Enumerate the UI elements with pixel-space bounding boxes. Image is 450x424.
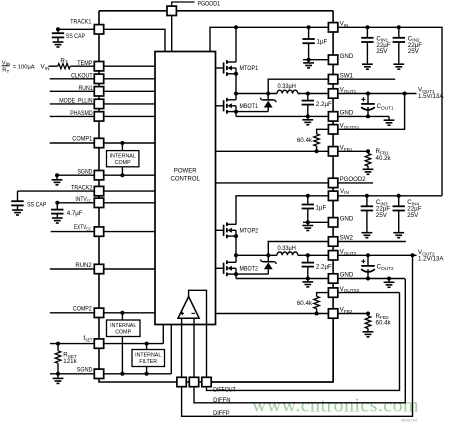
capacitor CIN1 bbox=[361, 37, 373, 39]
wire MODE_PLLIN bbox=[50, 103, 155, 105]
wire VIN rail right ch1 to far right bbox=[338, 27, 442, 196]
svg-text:SS CAP: SS CAP bbox=[27, 202, 46, 209]
ground GND1B bbox=[388, 118, 390, 121]
ground ch2 mid bbox=[307, 279, 309, 282]
svg-text:2.2µF: 2.2µF bbox=[316, 101, 332, 108]
svg-text:GND: GND bbox=[340, 272, 354, 279]
diode D1 schottky bbox=[267, 94, 269, 100]
wire DIFFOUT bbox=[211, 318, 333, 382]
node GND1A dot bbox=[307, 58, 311, 62]
op-amp plus sign bbox=[180, 312, 184, 314]
internal filter block bbox=[132, 350, 165, 367]
resistor RFB2 60.4k bbox=[365, 316, 371, 329]
svg-text:25V: 25V bbox=[376, 48, 388, 55]
resistor 60.4k ch1 bbox=[314, 134, 320, 146]
wire VOUTS1 sense loop bbox=[338, 94, 405, 130]
pin COMP2 (left) bbox=[94, 308, 103, 317]
package bottom edge through DIFF pins bbox=[177, 381, 333, 383]
wire VFB1 right bbox=[338, 150, 368, 152]
wire GND2A left bbox=[303, 221, 328, 223]
capacitor COUT2 bbox=[361, 260, 365, 262]
wire VFB1 bbox=[216, 150, 329, 152]
node diode2 junction bbox=[266, 253, 270, 257]
pin DIFFOUT (bottom) bbox=[202, 377, 211, 386]
left pin bus bbox=[98, 11, 100, 379]
wire DIFFOUT to VOUTS2 bbox=[207, 293, 400, 391]
svg-text:RUN2: RUN2 bbox=[75, 262, 92, 269]
ground CIN2 bbox=[398, 62, 400, 65]
resistor RFB1 40.2k bbox=[365, 154, 371, 166]
ground SGND1 bbox=[56, 175, 58, 180]
node VFB2 dots bbox=[315, 312, 319, 316]
svg-text:SGND: SGND bbox=[78, 168, 93, 175]
wire COMP2 to internal comp2 bbox=[121, 313, 123, 320]
resistor 60.4k ch2 bbox=[314, 296, 320, 308]
pin VIN (right) bbox=[328, 23, 337, 32]
wire PGOOD2 left bbox=[216, 182, 329, 184]
wire internal filter top bbox=[146, 344, 148, 350]
wire SW2 pin to switch node bbox=[268, 242, 328, 256]
capacitor CIN4 bbox=[393, 205, 405, 207]
wire diode2 anode to MBOT2 source bbox=[236, 273, 268, 275]
wire SGND2 bbox=[50, 373, 171, 375]
internal comp block 2 bbox=[107, 320, 141, 337]
wire TRACK1 to block top bbox=[104, 29, 165, 51]
svg-text:RUN1: RUN1 bbox=[79, 85, 94, 92]
svg-text:GND: GND bbox=[340, 216, 354, 223]
ground 1uF ch1 bbox=[308, 60, 310, 63]
svg-text:1.2V/13A: 1.2V/13A bbox=[418, 256, 444, 263]
right pin bus bbox=[332, 11, 334, 382]
inductor L2 0.33uH bbox=[277, 252, 298, 255]
transistor MBOT2 bbox=[216, 267, 224, 269]
pin GND (right) bbox=[328, 112, 337, 121]
svg-text:www.cntronics.com: www.cntronics.com bbox=[252, 395, 419, 417]
ground CIN4 bbox=[398, 231, 400, 234]
pin GND (right) bbox=[328, 218, 337, 227]
pin COMP1 (left) bbox=[94, 138, 103, 147]
ground SS CAP1 bbox=[57, 37, 59, 42]
wire PGOOD2 right stub bbox=[338, 182, 373, 184]
wire VOUTS2 to divider bbox=[317, 293, 329, 297]
wire EXTVCC bbox=[51, 231, 155, 233]
wire VIN rail ch1 bbox=[210, 27, 328, 51]
capacitor 1uF ch1 bbox=[302, 38, 314, 40]
power control block U1 bbox=[155, 52, 216, 325]
svg-text:MODE_PLLIN: MODE_PLLIN bbox=[59, 97, 92, 104]
pin GND (right) bbox=[328, 55, 337, 64]
wire FSET into block bottom bbox=[162, 325, 164, 344]
wire DIFFP bbox=[182, 255, 413, 416]
svg-text:DIFFP: DIFFP bbox=[213, 410, 230, 417]
svg-text:121k: 121k bbox=[63, 358, 77, 365]
pin DIFFN (bottom) bbox=[189, 377, 198, 386]
svg-text:1µF: 1µF bbox=[317, 39, 328, 46]
pin TRACK1 (left) bbox=[94, 25, 103, 34]
pin TRACK2 (left) bbox=[94, 186, 103, 195]
node COMP2 junction bbox=[120, 311, 124, 315]
svg-text:MTOP2: MTOP2 bbox=[240, 227, 259, 234]
pin VFB2 (right) bbox=[328, 309, 337, 318]
pin EXTVCC (left) bbox=[94, 227, 103, 236]
wire VFB2 bbox=[216, 313, 329, 315]
svg-text:TRACK2: TRACK2 bbox=[71, 184, 93, 191]
pin VOUTS1 (right) bbox=[328, 125, 337, 134]
svg-text:25V: 25V bbox=[407, 212, 419, 219]
wire internal comp1 to SGND bbox=[121, 167, 123, 175]
node TRACK1 sscap junction bbox=[56, 27, 60, 31]
wire SGND2 into block bottom bbox=[170, 325, 172, 374]
pin FSET (left) bbox=[94, 339, 103, 348]
svg-text:CLKOUT: CLKOUT bbox=[71, 72, 93, 79]
capacitor COUT1 bbox=[361, 98, 365, 100]
svg-text:60.4k: 60.4k bbox=[297, 300, 313, 307]
diode D2 schottky bbox=[267, 255, 269, 261]
node VIN rail dots ch1 bbox=[234, 25, 238, 29]
svg-text:SW2: SW2 bbox=[340, 235, 354, 242]
wire SW2 stub right bbox=[338, 241, 406, 243]
wire FSET bbox=[50, 343, 163, 345]
svg-text:4.7µF: 4.7µF bbox=[67, 210, 83, 217]
capacitor SS CAP (TRACK2) bbox=[11, 200, 23, 202]
pin TEMP (left) bbox=[94, 62, 103, 71]
pin PHASMD (left) bbox=[94, 112, 103, 121]
wire TRACK2 down to sscap2 bbox=[17, 191, 19, 201]
svg-text:GND: GND bbox=[340, 53, 354, 60]
wire VOUTS2 right to DIFFOUT riser bbox=[338, 292, 400, 294]
node COUT1 bottom dot bbox=[366, 114, 370, 118]
ground CIN1 bbox=[366, 62, 368, 65]
wire GND1B right bbox=[338, 115, 389, 117]
node SW2 junction bbox=[234, 253, 238, 257]
node 2.2uF top junction bbox=[306, 92, 310, 96]
wire internal filter bottom bbox=[146, 367, 148, 374]
wire VOUT1 right bbox=[338, 93, 417, 95]
resistor RSET bbox=[55, 351, 61, 364]
node SW1 junction bbox=[234, 92, 238, 96]
ground RFB1 bbox=[367, 168, 369, 171]
wire amp plus input to DIFFP pin bbox=[181, 318, 183, 377]
svg-text:POWER: POWER bbox=[174, 169, 197, 175]
pin SGND (left) bbox=[94, 369, 103, 378]
wire CLKOUT bbox=[50, 78, 155, 80]
wire amp output loop bbox=[189, 290, 207, 377]
svg-text:1µF: 1µF bbox=[316, 205, 327, 212]
capacitor CIN2 bbox=[393, 37, 405, 39]
svg-text:INTERNAL: INTERNAL bbox=[110, 154, 136, 160]
node COUT2 bottom dot bbox=[366, 277, 370, 281]
svg-text:SGND: SGND bbox=[77, 366, 93, 373]
ground SS CAP2 bbox=[17, 205, 19, 210]
op-amp U2 triangle bbox=[178, 297, 199, 319]
svg-text:0.33µH: 0.33µH bbox=[278, 245, 296, 252]
wire RUN2 bbox=[50, 268, 155, 270]
wire VFB2 right bbox=[338, 313, 368, 315]
capacitor 2.2uF ch1 bbox=[302, 100, 314, 102]
wire switch node to inductor ch2 bbox=[236, 254, 277, 256]
svg-text:COMP1: COMP1 bbox=[72, 136, 92, 143]
pin CLKOUT (left) bbox=[94, 74, 103, 83]
ground 1uF ch2 bbox=[307, 222, 309, 225]
wire VOUTS1 to divider bbox=[317, 129, 329, 134]
pin MODE_PLLIN (left) bbox=[94, 99, 103, 108]
ground 4.7uF bbox=[56, 214, 58, 218]
wire inductor to VOUT2 pin bbox=[298, 254, 329, 256]
node VFB1 dots bbox=[315, 149, 319, 153]
wire inductor to VOUT1 pin bbox=[298, 93, 329, 95]
op-amp minus sign bbox=[191, 312, 195, 314]
pin VFB1 (right) bbox=[328, 147, 337, 156]
svg-text:2.2µF: 2.2µF bbox=[316, 264, 332, 271]
node COMP1 junction bbox=[120, 141, 124, 145]
svg-text:PGOOD1: PGOOD1 bbox=[198, 1, 221, 8]
svg-text:INTERNAL: INTERNAL bbox=[135, 352, 161, 358]
wire COMP2 bbox=[50, 312, 155, 314]
capacitor CIN3 bbox=[361, 205, 373, 207]
wire amp minus input to DIFFN pin bbox=[193, 318, 195, 377]
ground CIN3 bbox=[366, 231, 368, 234]
ground RFB2 bbox=[367, 330, 369, 333]
node VOUT2 dots bbox=[366, 253, 370, 257]
wire GND line ch1 bbox=[236, 115, 328, 117]
resistor RT bbox=[58, 64, 70, 69]
wire SW1 stub right bbox=[338, 78, 395, 80]
pin VIN (right) bbox=[328, 191, 337, 200]
pin VOUT1 (right) bbox=[328, 89, 337, 98]
wire diode1 anode to MBOT1 source bbox=[236, 111, 268, 113]
svg-text:60.4k: 60.4k bbox=[297, 137, 313, 144]
node diode1 junction bbox=[266, 92, 270, 96]
transistor MTOP1 bbox=[216, 67, 224, 69]
svg-text:SW1: SW1 bbox=[340, 72, 354, 79]
capacitor SS CAP (TRACK1) bbox=[52, 32, 64, 34]
capacitor 1uF ch2 bbox=[302, 204, 314, 206]
transistor MBOT1 bbox=[216, 105, 224, 107]
wire TEMP bbox=[49, 65, 58, 67]
svg-text:PHASMD: PHASMD bbox=[70, 110, 93, 117]
wire VOUT2 right bbox=[338, 254, 417, 256]
svg-text:40.2k: 40.2k bbox=[376, 155, 392, 162]
svg-text:COMP2: COMP2 bbox=[73, 306, 92, 313]
ground GND2B bbox=[388, 281, 390, 284]
node GND line dots ch1 bbox=[306, 114, 310, 118]
package top edge bbox=[99, 10, 333, 12]
pin DIFFP (bottom) bbox=[177, 377, 186, 386]
node GND2A dot bbox=[306, 220, 310, 224]
package bottom edge jog at SGND bbox=[99, 379, 177, 382]
svg-text:COMP: COMP bbox=[115, 330, 131, 336]
wire VIN rail ch2 bbox=[236, 196, 328, 225]
ground SGND2 bbox=[57, 374, 59, 379]
svg-text:RT: RT bbox=[2, 68, 9, 74]
svg-text:GND: GND bbox=[340, 110, 354, 117]
svg-text:PGOOD2: PGOOD2 bbox=[340, 176, 367, 183]
capacitor 4.7uF bbox=[51, 209, 63, 211]
node FSET junctions bbox=[56, 342, 60, 346]
pin INTVCC (left) bbox=[94, 198, 103, 207]
internal comp block 1 bbox=[107, 151, 139, 167]
wire TRACK2 bbox=[18, 190, 156, 192]
wire TRACK1 left bbox=[58, 28, 94, 30]
svg-text:4620a F02: 4620a F02 bbox=[401, 418, 417, 422]
wire internal comp2 to SGND2 bbox=[121, 337, 123, 374]
svg-text:FILTER: FILTER bbox=[139, 359, 157, 365]
wire DIFFN bbox=[194, 279, 405, 403]
svg-text:MBOT1: MBOT1 bbox=[240, 103, 259, 110]
svg-text:TRACK1: TRACK1 bbox=[70, 19, 91, 26]
ground ch1 mid bbox=[307, 116, 309, 119]
pin RUN2 (left) bbox=[94, 264, 103, 273]
pin SW1 (right) bbox=[328, 75, 337, 84]
svg-text:COMP: COMP bbox=[115, 160, 131, 166]
node INTVCC junction bbox=[55, 201, 59, 205]
svg-text:CONTROL: CONTROL bbox=[171, 177, 201, 183]
wire PGOOD1 to block top bbox=[171, 16, 173, 52]
wire PGOOD1 label stub bbox=[172, 2, 195, 7]
svg-text:TEMP: TEMP bbox=[77, 60, 92, 67]
pin RUN1 (left) bbox=[94, 87, 103, 96]
wire GND line ch2 bbox=[236, 278, 328, 280]
wire switch node to inductor bbox=[236, 93, 277, 95]
svg-text:1.5V/13A: 1.5V/13A bbox=[418, 93, 444, 100]
capacitor 2.2uF ch2 bbox=[302, 262, 314, 264]
svg-text:0.33µH: 0.33µH bbox=[278, 83, 296, 90]
inductor L1 0.33uH bbox=[277, 90, 298, 93]
node GND line dots ch2 bbox=[306, 277, 310, 281]
svg-text:INTERNAL: INTERNAL bbox=[110, 323, 136, 329]
pin GND (right) bbox=[328, 274, 337, 283]
wire SGND1 bbox=[57, 174, 155, 176]
wire VIN rail right ch2 bbox=[338, 195, 442, 197]
node SGND1 junctions bbox=[120, 173, 124, 177]
node VIN rail dots ch2 bbox=[306, 194, 310, 198]
svg-text:MTOP1: MTOP1 bbox=[240, 65, 259, 72]
svg-text:MBOT2: MBOT2 bbox=[240, 266, 259, 273]
pin VOUTS2 (right) bbox=[328, 288, 337, 297]
pin SGND (left) bbox=[94, 171, 103, 180]
svg-text:SS CAP: SS CAP bbox=[66, 33, 85, 40]
pin PGOOD2 (right) bbox=[328, 178, 337, 187]
svg-text:25V: 25V bbox=[376, 212, 388, 219]
node SGND2 junctions bbox=[56, 372, 60, 376]
wire COMP1 to internal comp1 bbox=[121, 143, 123, 151]
wire COMP1 bbox=[50, 142, 155, 144]
wire GND1A left bbox=[303, 59, 328, 61]
svg-text:25V: 25V bbox=[408, 48, 420, 55]
svg-text:= 100µA: = 100µA bbox=[13, 65, 35, 71]
pin VOUT2 (right) bbox=[328, 251, 337, 260]
svg-text:DIFFN: DIFFN bbox=[213, 397, 230, 404]
pin SW2 (right) bbox=[328, 237, 337, 246]
pin PGOOD1 (top) bbox=[167, 6, 176, 15]
wire INTVCC bbox=[57, 202, 155, 204]
wire RUN1 bbox=[50, 90, 155, 92]
wire GND2B right bbox=[338, 278, 406, 280]
transistor MTOP2 bbox=[216, 229, 224, 231]
svg-text:DIFFOUT: DIFFOUT bbox=[213, 387, 236, 394]
wire PHASMD bbox=[50, 115, 155, 117]
node 2.2uF ch2 top junction bbox=[306, 253, 310, 257]
svg-text:60.4k: 60.4k bbox=[376, 320, 392, 327]
wire SW1 pin to switch node bbox=[268, 79, 328, 93]
node VOUT1 dots bbox=[366, 92, 370, 96]
